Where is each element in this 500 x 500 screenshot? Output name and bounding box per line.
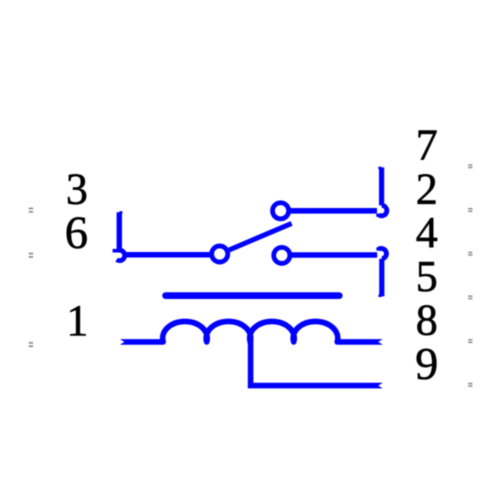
wire pole to pin 6 xyxy=(124,252,213,258)
pin 5 terminal stub xyxy=(378,259,381,297)
pin 6 terminal hook xyxy=(113,250,125,260)
edge tick right row 6 xyxy=(468,383,472,387)
pin 1 lead end notch xyxy=(119,339,124,345)
coil center tap wire to pin 9 xyxy=(251,341,383,386)
upper fixed contact circle xyxy=(273,203,289,219)
svg-text:2: 2 xyxy=(416,164,438,213)
switch arm xyxy=(229,223,291,250)
edge tick left of pin 3 row xyxy=(29,208,33,213)
edge tick left of pin 1 row xyxy=(29,342,33,347)
edge tick right row 3 xyxy=(468,252,472,256)
pin 8 lead end notch xyxy=(378,339,383,345)
svg-text:1: 1 xyxy=(66,296,88,345)
pin 9 lead end notch xyxy=(378,383,383,389)
edge tick right row 2 xyxy=(468,208,472,212)
svg-text:9: 9 xyxy=(415,338,438,389)
relay coil L1 xyxy=(120,321,382,342)
wire lower contact to pin 5 xyxy=(291,252,377,258)
svg-text:3: 3 xyxy=(66,164,88,213)
pin 6 terminal stub xyxy=(119,212,122,250)
lower fixed contact circle xyxy=(274,247,290,263)
edge tick right row 5 xyxy=(468,339,472,343)
pin 2 terminal hook xyxy=(376,205,387,215)
svg-text:4: 4 xyxy=(416,208,438,257)
edge tick right row 1 xyxy=(468,164,472,168)
svg-text:5: 5 xyxy=(416,252,438,301)
edge tick right row 4 xyxy=(468,295,472,299)
wire upper contact to pin 2 xyxy=(290,208,377,214)
edge tick left of pin 6 row xyxy=(29,253,33,258)
svg-text:7: 7 xyxy=(416,121,438,170)
armature bar xyxy=(166,292,340,299)
switch pole contact circle xyxy=(212,246,228,262)
pin 5 terminal hook xyxy=(376,248,386,258)
pin 2 terminal stub xyxy=(378,167,381,205)
svg-text:6: 6 xyxy=(65,208,88,259)
